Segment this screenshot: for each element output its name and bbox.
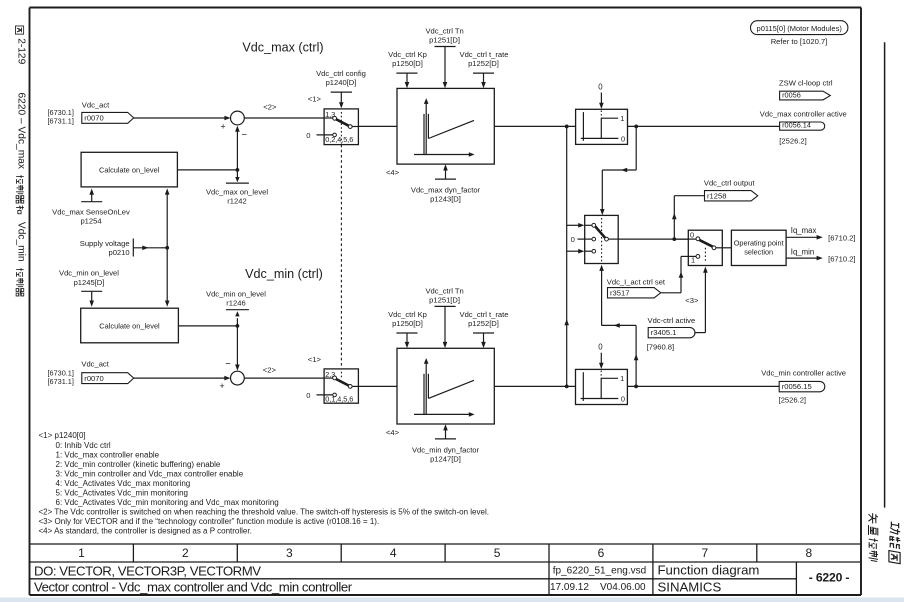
svg-text:p1252[D]: p1252[D] bbox=[468, 319, 499, 328]
parameter input p1240 Vdc_ctrl config bbox=[316, 69, 366, 108]
svg-text:<4> As standard, the controlle: <4> As standard, the controller is desig… bbox=[39, 527, 252, 536]
selector switch lower (p1240) bbox=[306, 369, 358, 404]
footer row DO: VECTOR, VECTOR3P, VECTORMV bbox=[34, 564, 261, 579]
connector r3517 Vdc_I_act ctrl set bbox=[607, 278, 666, 298]
svg-text:3: Vdc_min controller and Vdc_: 3: Vdc_min controller and Vdc_max contro… bbox=[56, 469, 244, 478]
footer page number - 6220 - bbox=[809, 571, 850, 585]
svg-text:0: 0 bbox=[306, 131, 310, 140]
svg-text:0: 0 bbox=[621, 135, 625, 144]
wire hysteresis out to r0056.15 bbox=[627, 385, 779, 387]
bottom blue strip bbox=[0, 598, 904, 602]
node PI output lower bbox=[565, 385, 569, 389]
svg-text:Vdc_ctrl Tn: Vdc_ctrl Tn bbox=[425, 26, 463, 35]
svg-text:[6710.2]: [6710.2] bbox=[828, 233, 855, 242]
svg-text:Vdc_min controller active: Vdc_min controller active bbox=[761, 369, 846, 378]
svg-text:<2> The Vdc controller is swit: <2> The Vdc controller is switched on wh… bbox=[39, 508, 489, 517]
svg-text:p1252[D]: p1252[D] bbox=[468, 59, 499, 68]
node hysteresis output lower bbox=[634, 385, 638, 389]
wire PI outputs to common selector rail bbox=[564, 126, 569, 386]
wire summation to switch lower bbox=[244, 377, 324, 379]
svg-text:5: 5 bbox=[494, 546, 501, 560]
wire supply to upper calc box bbox=[165, 188, 170, 247]
svg-text:Vdc_ctrl t_rate: Vdc_ctrl t_rate bbox=[460, 50, 509, 59]
svg-text:1: 1 bbox=[78, 546, 85, 560]
constant 0 into hysteresis upper bbox=[598, 82, 603, 109]
svg-text:<1>: <1> bbox=[308, 355, 322, 364]
svg-text:0: 0 bbox=[621, 395, 625, 404]
svg-text:r3405.1: r3405.1 bbox=[651, 328, 677, 337]
svg-text:p1243[D]: p1243[D] bbox=[430, 195, 461, 204]
svg-text:Vdc_ctrl config: Vdc_ctrl config bbox=[316, 69, 366, 78]
wire hysteresis out to r0056.14 bbox=[628, 125, 780, 127]
svg-text:Function diagram: Function diagram bbox=[658, 563, 760, 578]
constant 0 into selector input 2 bbox=[571, 235, 585, 244]
svg-text:2-129: 2-129 bbox=[16, 38, 27, 64]
parameter output r1242 Vdc_max on_level bbox=[206, 170, 268, 205]
control wire Vdc_min active to selector bottom bbox=[599, 265, 638, 387]
svg-text:Vdc_act: Vdc_act bbox=[81, 360, 109, 369]
svg-text:0: Inhib Vdc ctrl: 0: Inhib Vdc ctrl bbox=[56, 441, 111, 450]
svg-text:Vdc-ctrl active: Vdc-ctrl active bbox=[648, 316, 696, 325]
parameter inputs p1250 p1251 p1252 upper bbox=[388, 26, 508, 88]
connector r0056.14 Vdc_max controller active bbox=[760, 110, 847, 146]
svg-text:0: 0 bbox=[306, 391, 310, 400]
svg-text:p1254: p1254 bbox=[80, 216, 101, 225]
wire selector rail into Iq switch input 1 bbox=[674, 238, 688, 240]
node at r1246 junction bbox=[236, 324, 240, 328]
svg-text:r1242: r1242 bbox=[227, 196, 246, 205]
svg-text:Vdc_max controller active: Vdc_max controller active bbox=[760, 110, 847, 119]
footer date and version bbox=[550, 582, 646, 593]
svg-text:4: Vdc_Activates Vdc_max monit: 4: Vdc_Activates Vdc_max monitoring bbox=[56, 479, 191, 488]
svg-text:Iq_max: Iq_max bbox=[791, 226, 817, 235]
svg-text:p1247[D]: p1247[D] bbox=[430, 454, 461, 463]
note <3> bbox=[685, 296, 699, 305]
svg-text:p1251[D]: p1251[D] bbox=[429, 35, 460, 44]
parameter input p1243 Vdc_max dyn_factor bbox=[411, 164, 481, 203]
svg-text:Calculate on_level: Calculate on_level bbox=[99, 321, 160, 330]
svg-text:6220 – Vdc_max: 6220 – Vdc_max bbox=[16, 93, 27, 169]
svg-text:8: 8 bbox=[805, 546, 812, 560]
parameter input p1254 Vdc_max SenseOnLev bbox=[52, 189, 130, 226]
svg-text:<3>: <3> bbox=[685, 296, 699, 305]
svg-text:Vdc_act: Vdc_act bbox=[82, 101, 110, 110]
wire summation to switch upper bbox=[244, 117, 324, 119]
svg-text:7: 7 bbox=[702, 546, 709, 560]
wire switch to PI upper bbox=[358, 125, 397, 127]
p0115 motor modules capsule bbox=[751, 21, 848, 46]
note <2> upper bbox=[263, 103, 277, 112]
PI controller box upper (Vdc_max) bbox=[397, 88, 494, 164]
svg-text:p0210: p0210 bbox=[108, 248, 129, 257]
svg-text:- 6220 -: - 6220 - bbox=[809, 571, 850, 585]
PI controller box lower (Vdc_min) bbox=[397, 348, 494, 424]
wire PI out to hysteresis upper bbox=[494, 125, 575, 127]
svg-text:Vdc_ctrl output: Vdc_ctrl output bbox=[704, 179, 756, 188]
footer column numbers 1-8 bbox=[78, 546, 812, 560]
upper Calculate on_level box bbox=[81, 152, 177, 187]
svg-text:<2>: <2> bbox=[263, 365, 277, 374]
ref labels [6730.1] [6731.1] lower bbox=[48, 368, 74, 386]
svg-text:p1251[D]: p1251[D] bbox=[429, 295, 460, 304]
svg-text:<4>: <4> bbox=[386, 168, 400, 177]
svg-text:<4>: <4> bbox=[386, 428, 400, 437]
node hysteresis output upper bbox=[634, 125, 638, 129]
wire r3517 to Iq switch input 2 bbox=[661, 256, 696, 292]
hysteresis monitor box upper bbox=[576, 109, 628, 144]
lower Calculate on_level box bbox=[81, 308, 179, 343]
svg-text:r0070: r0070 bbox=[84, 374, 103, 383]
wire feedback into summation minus lower bbox=[235, 326, 240, 371]
hysteresis monitor box lower bbox=[576, 369, 628, 404]
left margin caption 6220 - Vdc_max controller and Vdc_min controller (chinese) bbox=[16, 93, 27, 297]
parameter input p1247 Vdc_min dyn_factor bbox=[412, 424, 480, 463]
parameter input p0210 Supply voltage bbox=[80, 239, 161, 258]
svg-text:0: 0 bbox=[598, 343, 603, 352]
svg-text:[6731.1]: [6731.1] bbox=[48, 117, 74, 126]
footer title Vector control - Vdc_max controller and Vdc_min controller bbox=[34, 580, 353, 595]
svg-text:0: 0 bbox=[690, 231, 694, 240]
wire into selector input 3 bbox=[567, 249, 585, 254]
svg-text:2: Vdc_min controller (kinetic: 2: Vdc_min controller (kinetic buffering… bbox=[56, 460, 221, 469]
constant 0 into hysteresis lower bbox=[598, 343, 603, 370]
svg-text:r0056.14: r0056.14 bbox=[782, 121, 811, 130]
footer table grid bbox=[30, 544, 862, 595]
summation point lower bbox=[220, 358, 245, 391]
svg-text:17.09.12: 17.09.12 bbox=[550, 582, 589, 593]
connector r0056.15 Vdc_min controller active bbox=[761, 369, 846, 405]
wire p1240 dashed to lower switch bbox=[340, 145, 342, 368]
svg-text:−: − bbox=[225, 358, 231, 369]
svg-text:Vdc_max SenseOnLev: Vdc_max SenseOnLev bbox=[52, 207, 130, 216]
node supply voltage junction bbox=[161, 246, 169, 250]
note <1> lower bbox=[308, 355, 322, 364]
svg-text:0: 0 bbox=[598, 82, 603, 91]
operating point selection box bbox=[731, 230, 786, 265]
connector r0056 ZSW cl-loop ctrl bbox=[779, 79, 833, 100]
parameter output r1246 Vdc_min on_level bbox=[206, 290, 266, 326]
svg-text:r0056.15: r0056.15 bbox=[782, 382, 812, 391]
svg-text:Vdc_min: Vdc_min bbox=[16, 222, 27, 262]
footer Function diagram bbox=[658, 563, 760, 578]
svg-text:6: 6 bbox=[598, 546, 605, 560]
connector r0070 Vdc_act lower bbox=[81, 360, 133, 384]
connector r1258 Vdc_ctrl output bbox=[704, 179, 758, 201]
wire r0070 to summation lower bbox=[134, 376, 231, 381]
svg-text:+: + bbox=[221, 122, 226, 132]
svg-text:Vdc_ctrl t_rate: Vdc_ctrl t_rate bbox=[460, 310, 509, 319]
svg-text:SINAMICS: SINAMICS bbox=[658, 580, 722, 595]
svg-text:Vdc_max dyn_factor: Vdc_max dyn_factor bbox=[411, 186, 481, 195]
svg-text:3: 3 bbox=[286, 546, 293, 560]
node r1258 junction bbox=[672, 237, 676, 241]
right margin rule bbox=[884, 42, 886, 507]
svg-text:r0056: r0056 bbox=[782, 90, 801, 99]
ref labels [6730.1] [6731.1] upper bbox=[48, 108, 74, 126]
svg-text:selection: selection bbox=[744, 248, 773, 257]
svg-text:Calculate on_level: Calculate on_level bbox=[99, 165, 160, 174]
parameter inputs p1250 p1251 p1252 lower bbox=[388, 286, 508, 348]
svg-text:0,1,4,5,6: 0,1,4,5,6 bbox=[325, 395, 353, 404]
Iq setpoint switch bbox=[688, 230, 722, 265]
svg-text:p1240[D]: p1240[D] bbox=[326, 78, 357, 87]
wire selector output to Iq switch bbox=[618, 238, 688, 240]
svg-text:p1250[D]: p1250[D] bbox=[392, 319, 423, 328]
svg-text:4: 4 bbox=[390, 546, 397, 560]
svg-text:Vdc_ctrl Kp: Vdc_ctrl Kp bbox=[388, 310, 427, 319]
svg-text:Vdc_I_act ctrl set: Vdc_I_act ctrl set bbox=[607, 278, 666, 287]
wire supply to lower calc box bbox=[165, 248, 170, 307]
right margin caption function diagram (chinese, italic) bbox=[889, 521, 900, 563]
svg-text:Vdc_min on_level: Vdc_min on_level bbox=[206, 290, 266, 299]
svg-text:6: Vdc_Activates Vdc_min monit: 6: Vdc_Activates Vdc_min monitoring and … bbox=[56, 498, 279, 507]
svg-text:<3> Only for VECTOR and if the: <3> Only for VECTOR and if the “technolo… bbox=[39, 517, 380, 526]
svg-text:−: − bbox=[242, 130, 248, 141]
footnotes block bbox=[39, 431, 489, 536]
svg-text:Iq_min: Iq_min bbox=[791, 247, 814, 256]
control wire Vdc_max active to selector bbox=[600, 126, 636, 215]
svg-text:+: + bbox=[220, 381, 225, 391]
svg-text:[7960.8]: [7960.8] bbox=[647, 343, 674, 352]
svg-text:p0115[0] (Motor Modules): p0115[0] (Motor Modules) bbox=[757, 24, 843, 33]
connector r3405.1 Vdc-ctrl active bbox=[647, 316, 695, 352]
svg-text:Vdc_max (ctrl): Vdc_max (ctrl) bbox=[242, 41, 323, 55]
svg-text:Supply voltage: Supply voltage bbox=[80, 239, 130, 248]
wire r0070 to summation upper bbox=[134, 116, 231, 121]
node at r1242 junction bbox=[236, 168, 240, 172]
selector switch upper (p1240) bbox=[306, 109, 358, 145]
output Iq_max to [6710.2] bbox=[786, 226, 855, 242]
svg-text:[2526.2]: [2526.2] bbox=[779, 395, 806, 404]
svg-text:<2>: <2> bbox=[263, 103, 277, 112]
wire to r1258 connector bbox=[672, 196, 705, 239]
output selector switch (3 inputs) bbox=[585, 215, 619, 263]
svg-text:[2526.2]: [2526.2] bbox=[779, 136, 806, 145]
svg-text:0: 0 bbox=[571, 235, 575, 244]
title Vdc_min (ctrl) bbox=[245, 267, 323, 281]
svg-text:p1250[D]: p1250[D] bbox=[392, 59, 423, 68]
parameter input p1245 Vdc_min on_level bbox=[59, 269, 119, 307]
svg-text:Vdc_min (ctrl): Vdc_min (ctrl) bbox=[245, 267, 323, 281]
svg-text:Vdc_min dyn_factor: Vdc_min dyn_factor bbox=[412, 445, 480, 454]
svg-text:r0070: r0070 bbox=[84, 114, 103, 123]
svg-text:1: Vdc_max controller enable: 1: Vdc_max controller enable bbox=[56, 450, 160, 459]
title Vdc_max (ctrl) bbox=[242, 41, 323, 55]
svg-text:r1246: r1246 bbox=[226, 299, 245, 308]
svg-text:ZSW cl-loop ctrl: ZSW cl-loop ctrl bbox=[779, 79, 833, 88]
note <1> upper bbox=[308, 95, 322, 104]
left margin caption tu 2-129 bbox=[15, 26, 26, 65]
wire Iq switch to operating point box bbox=[716, 247, 732, 249]
svg-text:fp_6220_51_eng.vsd: fp_6220_51_eng.vsd bbox=[553, 566, 646, 577]
svg-text:Vector control - Vdc_max contr: Vector control - Vdc_max controller and … bbox=[34, 580, 353, 595]
svg-text:[6731.1]: [6731.1] bbox=[48, 377, 74, 386]
svg-text:DO: VECTOR, VECTOR3P, VECTORMV: DO: VECTOR, VECTOR3P, VECTORMV bbox=[34, 564, 261, 579]
note <4> upper bbox=[386, 168, 400, 177]
svg-text:Vdc_min on_level: Vdc_min on_level bbox=[59, 269, 119, 278]
node PI output upper bbox=[565, 125, 569, 129]
wire PI out to hysteresis lower bbox=[494, 385, 575, 387]
wire lower calc box to r1246 node bbox=[178, 325, 237, 327]
svg-text:1: 1 bbox=[620, 374, 624, 383]
note <2> lower bbox=[263, 365, 277, 374]
svg-text:Operating point: Operating point bbox=[734, 238, 784, 247]
svg-text:Refer to [1020.7]: Refer to [1020.7] bbox=[771, 37, 828, 46]
wire calc box to r1242 node bbox=[177, 169, 237, 171]
svg-text:<1> p1240[0]: <1> p1240[0] bbox=[39, 431, 86, 440]
svg-text:[6710.2]: [6710.2] bbox=[828, 254, 855, 263]
summation point upper bbox=[221, 111, 248, 140]
svg-text:Vdc_ctrl Kp: Vdc_ctrl Kp bbox=[388, 50, 427, 59]
connector r0070 Vdc_act upper bbox=[82, 101, 134, 124]
svg-text:r1258: r1258 bbox=[707, 191, 726, 200]
svg-text:2: 2 bbox=[182, 546, 189, 560]
svg-text:5: Vdc_Activates Vdc_min monit: 5: Vdc_Activates Vdc_min monitoring bbox=[56, 489, 189, 498]
footer file name fp_6220_51_eng.vsd bbox=[553, 566, 646, 577]
svg-text:V04.06.00: V04.06.00 bbox=[600, 582, 646, 593]
svg-text:0,2,4,5,6: 0,2,4,5,6 bbox=[325, 135, 353, 144]
output Iq_min to [6710.2] bbox=[786, 247, 855, 263]
note <4> lower bbox=[386, 428, 400, 437]
svg-text:Vdc_max on_level: Vdc_max on_level bbox=[206, 187, 268, 196]
svg-text:Vdc_ctrl Tn: Vdc_ctrl Tn bbox=[425, 286, 463, 295]
wire into selector input 1 bbox=[567, 223, 585, 228]
wire feedback into summation minus upper bbox=[235, 126, 240, 170]
svg-text:1: 1 bbox=[620, 114, 624, 123]
svg-text:r3517: r3517 bbox=[610, 288, 629, 297]
wire r3405.1 to Iq switch control bbox=[695, 267, 708, 333]
footer SINAMICS bbox=[658, 580, 722, 595]
right margin caption vector control (chinese, italic) bbox=[868, 512, 878, 561]
svg-text:<1>: <1> bbox=[308, 95, 322, 104]
wire switch to PI lower bbox=[358, 385, 397, 387]
svg-text:p1245[D]: p1245[D] bbox=[74, 278, 105, 287]
